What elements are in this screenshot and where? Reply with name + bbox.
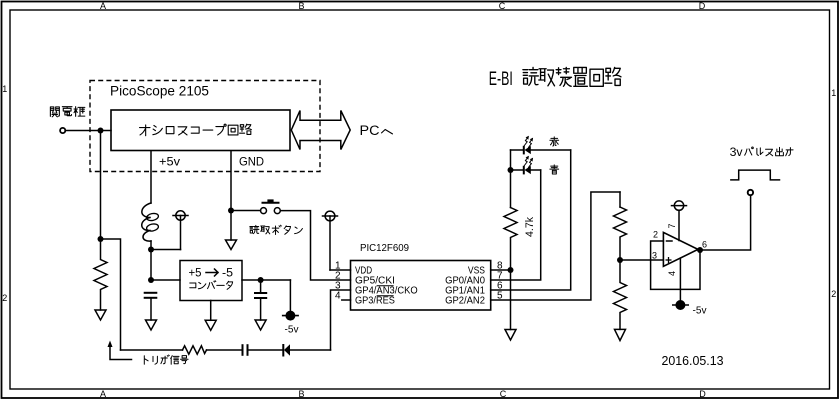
- feedback wire pin2 to output: [651, 241, 700, 289]
- svg-text:-5: -5: [222, 266, 233, 280]
- svg-text:B: B: [298, 389, 304, 399]
- wire pin8 to 4.7k node: [491, 269, 511, 271]
- wire input to scope box: [66, 130, 112, 132]
- wire 4.7k node to ground: [510, 270, 512, 330]
- label read button kanji 読取ボタン: [250, 225, 259, 233]
- resistor divider bottom: [614, 260, 627, 329]
- inductor L1: [142, 203, 151, 241]
- label blue kanji: [550, 165, 559, 174]
- wire pin5 to divider: [491, 192, 620, 300]
- wire pin3 to trigger line: [331, 290, 351, 350]
- label red kanji: [550, 137, 559, 146]
- node input junction: [98, 128, 104, 134]
- svg-text:PIC12F609: PIC12F609: [360, 242, 409, 254]
- svg-text:3v: 3v: [730, 145, 743, 159]
- svg-text:PC: PC: [360, 123, 380, 138]
- pulse waveform: [731, 170, 780, 180]
- svg-text:-5v: -5v: [285, 324, 300, 336]
- wire node to converter: [151, 279, 180, 281]
- svg-text:C: C: [500, 389, 507, 399]
- wire inductor to node: [150, 241, 152, 280]
- resistor left (input pulldown): [94, 239, 107, 310]
- ground under 4.7k: [505, 330, 516, 341]
- converter box +5 to -5: [180, 261, 242, 301]
- node LED blue: [508, 167, 514, 173]
- node converter input: [148, 277, 154, 283]
- output terminal circle: [748, 190, 753, 195]
- capacitor trigger: [243, 344, 248, 356]
- wire red LED to pin6: [491, 150, 571, 290]
- svg-text:+5: +5: [189, 266, 202, 280]
- label trigger signal kanji トリガ信号: [144, 356, 148, 364]
- svg-text:4: 4: [335, 291, 341, 302]
- svg-text:2016.05.13: 2016.05.13: [662, 354, 724, 368]
- op-amp U1 triangle: [663, 232, 698, 266]
- wire divider to op-amp +: [620, 259, 663, 261]
- svg-text:B: B: [298, 1, 304, 11]
- label converter katakana: [190, 283, 196, 288]
- power symbol +5 (left): [173, 211, 188, 250]
- wire converter out: [242, 279, 290, 281]
- svg-text:D: D: [699, 1, 706, 11]
- wire node to +5 symbol: [151, 249, 181, 251]
- svg-text:2: 2: [653, 230, 658, 240]
- wire blue LED to pin7: [491, 170, 541, 280]
- diode trigger: [283, 344, 290, 357]
- ground under GND wire: [226, 240, 237, 250]
- wire input node down: [100, 131, 102, 240]
- svg-text:4.7k: 4.7k: [524, 217, 536, 237]
- -5v terminal (converter): [289, 280, 291, 311]
- svg-text:2: 2: [2, 293, 7, 303]
- power symbol +5 (PIC pin1): [323, 211, 338, 270]
- svg-text:GND: GND: [239, 155, 264, 169]
- svg-text:3: 3: [652, 251, 657, 261]
- wire LED top chain: [510, 150, 512, 208]
- svg-text:C: C: [499, 1, 506, 11]
- svg-text:D: D: [699, 389, 706, 399]
- svg-text:2: 2: [831, 289, 836, 299]
- ground under C1: [146, 320, 157, 330]
- svg-text:PicoScope 2105: PicoScope 2105: [110, 83, 209, 99]
- svg-text:7: 7: [667, 223, 677, 228]
- svg-text:GP2/AN2: GP2/AN2: [445, 296, 485, 307]
- resistor trigger (horizontal): [183, 346, 207, 354]
- resistor 4.7k: [504, 208, 517, 271]
- label oscilloscope circuit kanji: [140, 125, 150, 136]
- op-amp pin4 to -5v: [679, 258, 681, 300]
- capacitor C1: [144, 293, 158, 298]
- PicoScope 2105 dashed enclosure: [90, 81, 320, 172]
- svg-text:1: 1: [2, 84, 7, 94]
- label electrode kanji 関電極: [50, 107, 59, 117]
- wire pin1 stub: [330, 269, 351, 271]
- ground under C2: [255, 320, 266, 330]
- wire pin4 stub: [342, 299, 351, 301]
- node divider mid: [617, 257, 623, 263]
- node converter output: [258, 277, 264, 283]
- svg-text:4: 4: [667, 271, 677, 276]
- svg-text:-5v: -5v: [693, 305, 708, 317]
- op-amp minus sign: [667, 240, 673, 242]
- svg-text:6: 6: [702, 240, 707, 250]
- bidirectional arrow to PC: [291, 111, 350, 150]
- resistor divider top: [614, 207, 627, 260]
- wire branch to trigger drop: [101, 239, 121, 350]
- oscilloscope circuit box: [111, 110, 290, 151]
- svg-text:E-BI: E-BI: [489, 69, 513, 90]
- op-amp pin7 power: [672, 201, 687, 241]
- svg-text:GP3/RES: GP3/RES: [355, 296, 395, 307]
- ground under converter: [210, 301, 212, 321]
- trigger annotation arrow: [110, 346, 132, 360]
- node pin8: [508, 267, 514, 273]
- LED D-red: [524, 146, 531, 155]
- title kanji 読取装置回路: [523, 67, 538, 85]
- LED D-blue: [511, 169, 524, 171]
- node +5 junction: [148, 247, 154, 253]
- svg-text:+5v: +5v: [159, 155, 180, 169]
- divider top wire: [619, 192, 621, 207]
- svg-text:A: A: [100, 1, 106, 11]
- op-amp plus sign: [666, 257, 672, 263]
- trigger wire left segment: [121, 349, 183, 351]
- wire button to PIC pin2: [280, 211, 350, 280]
- input terminal circle: [60, 128, 65, 133]
- wire scope +5v down: [150, 151, 152, 203]
- IC PIC12F609 box: [351, 261, 491, 311]
- ground under left resistor: [95, 310, 106, 320]
- label he kana: [382, 129, 393, 133]
- capacitor C2: [260, 280, 262, 293]
- svg-text:1: 1: [831, 88, 836, 98]
- wire output to terminal: [700, 195, 751, 250]
- svg-text:A: A: [100, 389, 106, 399]
- push button (read button): [261, 199, 281, 213]
- node op-amp output: [697, 247, 703, 253]
- LED red row wire: [511, 149, 524, 151]
- node left branch: [98, 236, 104, 242]
- wire GND node to button: [231, 210, 261, 212]
- wire scope GND down: [230, 151, 232, 240]
- ground under divider: [615, 329, 626, 340]
- node GND junction: [228, 208, 234, 214]
